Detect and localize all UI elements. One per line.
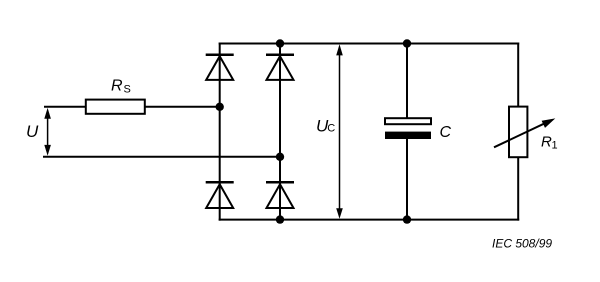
svg-text:C: C bbox=[440, 124, 452, 141]
svg-text:U: U bbox=[26, 122, 39, 141]
svg-text:1: 1 bbox=[552, 140, 558, 152]
svg-text:S: S bbox=[124, 84, 131, 96]
svg-text:IEC 508/99: IEC 508/99 bbox=[492, 237, 552, 251]
svg-text:R: R bbox=[111, 78, 123, 95]
svg-text:R: R bbox=[541, 134, 552, 151]
svg-text:C: C bbox=[327, 123, 335, 135]
